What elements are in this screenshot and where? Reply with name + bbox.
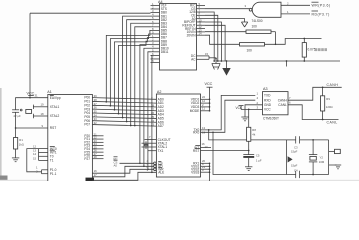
wire crystal top from TX0 row [209, 130, 287, 140]
svg-text:23: 23 [151, 123, 155, 127]
junction dot CANL at R9 [322, 119, 324, 121]
ground under A3 GND [241, 117, 248, 121]
svg-text:100: 100 [247, 48, 253, 52]
svg-text:17: 17 [94, 173, 98, 177]
wire RX0 to A3 RXD [201, 100, 256, 132]
wire VSS tie bar [209, 163, 211, 172]
filled triangle ground [226, 61, 228, 68]
svg-text:CTM1050T: CTM1050T [263, 117, 279, 121]
svg-text:CANL: CANL [327, 121, 338, 125]
NAND gate inversion bubble [249, 8, 252, 11]
op IC A4 AD574 body [160, 4, 197, 71]
bus wire DB4 direct L-bend [135, 27, 151, 126]
svg-text:T1: T1 [50, 159, 54, 163]
crystal stub body small [144, 145, 148, 146]
IC A1 P2 stubs [92, 135, 103, 137]
svg-text:RX0: RX0 [193, 131, 199, 135]
bus wire DB5 double-bend staircase [106, 30, 150, 101]
IC A1 pin RST stub [16, 127, 48, 129]
svg-text:ALE: ALE [158, 171, 164, 175]
wire CANH out [288, 87, 342, 100]
svg-text:15pF: 15pF [291, 163, 298, 167]
wire A4 BIPOFF drop [205, 22, 221, 61]
bus wire DB8 double-bend staircase [119, 41, 151, 114]
IC A1 pin EA stub from VCC node [30, 97, 48, 99]
ground under R1 [12, 158, 19, 162]
wire R5 to loop corner [271, 31, 276, 33]
wire cap to RST node [15, 112, 17, 137]
IC A1 dark label blob bottom [86, 178, 95, 181]
capacitor C5 electrolytic [248, 151, 250, 155]
svg-text:32: 32 [94, 121, 98, 125]
svg-text:P27: P27 [84, 157, 90, 161]
IC A1 pin XTAL1 stub [33, 106, 47, 108]
CLKOUT stub [145, 139, 157, 141]
svg-text:1 µF: 1 µF [256, 159, 262, 163]
digital ground under gate [241, 22, 247, 27]
svg-text:XTAL1: XTAL1 [50, 105, 60, 109]
wire RST to reset RC node [201, 150, 249, 152]
junction dot CANH at R9 [322, 86, 324, 88]
resistor R9 120ohm vertical [322, 87, 324, 96]
wire INT stub [201, 147, 212, 149]
svg-text:RD(P3.7): RD(P3.7) [312, 12, 330, 16]
stub down from rail [286, 61, 288, 67]
capacitor C1 22uF electrolytic plates [12, 109, 19, 111]
IC A2 pins CS RD WR ALE bubbles [154, 162, 157, 165]
svg-text:A3: A3 [263, 87, 268, 91]
bus wire DB1 direct L-bend [123, 16, 151, 117]
wire gate output to A4 CS row [205, 8, 249, 10]
crystal Y2 vertical taps [312, 140, 314, 155]
svg-text:GND: GND [264, 103, 272, 107]
junction dot VCC node [29, 97, 31, 99]
svg-text:VCC: VCC [264, 108, 271, 112]
wire VDD bar to VCC [209, 87, 211, 99]
svg-text:VCC: VCC [236, 106, 243, 110]
resistor R8 vertical [248, 109, 250, 127]
wire 20VIN jog down [205, 35, 240, 44]
bus junction dots lower [139, 162, 141, 164]
svg-text:AC: AC [191, 58, 196, 62]
junction dot rail mid [226, 60, 228, 62]
svg-text:A1: A1 [47, 90, 52, 94]
bus wire DB3 direct L-bend [131, 23, 151, 125]
wire VCC loop horizontal top [30, 12, 151, 14]
bus verticals DB9-DB11 down to A2 control rows [140, 45, 151, 164]
svg-text:0.075: 0.075 [308, 48, 316, 52]
svg-text:WR(P3.6): WR(P3.6) [312, 4, 331, 8]
wire A4 CE control drop [205, 15, 218, 61]
bus rows P0 to AD [92, 98, 156, 100]
svg-text:TX1: TX1 [158, 149, 164, 153]
wire to terminal box [329, 151, 335, 153]
svg-text:22 µF: 22 µF [14, 114, 21, 118]
wire VSS bar down [209, 172, 211, 181]
svg-text:DB11: DB11 [161, 50, 169, 54]
wire analog common rail [209, 57, 216, 59]
svg-text:A0: A0 [114, 164, 118, 168]
scan artifact: bottom-left dark blob [0, 176, 8, 182]
wire crystal bottom from RX0 row [213, 132, 287, 174]
VCC tick at A3 [240, 106, 242, 110]
bus wire DB7 double-bend staircase [114, 38, 150, 110]
junction dot RX0 crystal tap [212, 131, 214, 133]
svg-text:CANL: CANL [278, 103, 287, 107]
wire tie bar P1.0-P1.1 [41, 170, 43, 174]
junction dot RST node A2 [248, 150, 250, 152]
scan artifact: bottom edge shade [0, 180, 359, 181]
IC A2 VDD stubs to tie bar [201, 98, 210, 100]
VSS stubs to tie bar [201, 162, 210, 164]
svg-text:VCC: VCC [205, 82, 213, 86]
wire DC-AC tie bar [208, 56, 210, 59]
svg-text:31: 31 [35, 94, 39, 98]
IC A1 P1.0 P1.1 stubs [42, 169, 48, 171]
IC A4 pin AC stub [197, 58, 210, 60]
wire gate input pin 1 [281, 13, 310, 15]
wire bracket loop left [27, 149, 42, 172]
XTAL1 stub with crystal plate tick [142, 146, 157, 148]
resistor R6 100 horizontal [240, 43, 265, 46]
CAN transceiver IC A3 body [263, 92, 289, 115]
IC A4 left pin stubs [151, 4, 160, 6]
svg-text:74LS00: 74LS00 [252, 19, 263, 23]
shunt chinese label blocks [315, 48, 327, 51]
scan artifact: left edge shade [0, 88, 2, 181]
wire R8 to RST node [248, 141, 250, 150]
analog ground splayed [212, 59, 220, 70]
svg-text:120Ω: 120Ω [326, 105, 333, 109]
wire RD from A1 pin17 to A2 [92, 166, 153, 177]
NAND gate U5 74LS00 body (mirrored) [252, 2, 281, 17]
junction dot A3 VCC row [248, 109, 250, 111]
svg-text:RST: RST [193, 149, 199, 153]
svg-text:TXD: TXD [264, 94, 271, 98]
wire C5 to ground [248, 158, 250, 167]
svg-text:A2: A2 [157, 90, 162, 94]
CAN IC A2 SJA1000 body [156, 94, 200, 177]
VDD junction dots [209, 98, 211, 100]
svg-text:MODE: MODE [190, 109, 200, 113]
svg-text:R9: R9 [326, 97, 330, 101]
TX1 stub [148, 150, 156, 152]
shunt resistor R7 0.075 vertical [303, 39, 305, 43]
svg-text:Y2: Y2 [320, 155, 324, 159]
svg-text:11: 11 [202, 107, 205, 111]
svg-text:P1.1: P1.1 [50, 172, 57, 176]
wire to ground right [329, 164, 337, 166]
wire R6 to step up [265, 39, 322, 45]
crystal Y1 plates at XTAL pins [32, 105, 34, 109]
svg-text:17: 17 [205, 145, 209, 149]
bus wire DB2 direct L-bend [127, 20, 151, 122]
svg-text:28: 28 [94, 155, 98, 159]
IC A1 INT0/INT1/T0/T1 stubs [39, 148, 48, 150]
ground under C5 [245, 167, 252, 171]
wire tie bar INT0-T1 [38, 149, 40, 161]
IC A3 GND stub wire to ground [245, 105, 263, 117]
IC A4 pin DC stub [197, 55, 210, 57]
svg-text:C4: C4 [294, 168, 298, 172]
junction dot at shunt top [303, 38, 305, 40]
bus wire DB6 double-bend staircase [110, 34, 150, 106]
svg-text:20VIN: 20VIN [187, 33, 197, 37]
svg-text:14: 14 [199, 32, 203, 36]
svg-text:1kΩ: 1kΩ [19, 142, 24, 146]
svg-text:15: 15 [205, 52, 209, 56]
junction dot at shunt bottom [303, 60, 305, 62]
svg-text:VCC: VCC [27, 92, 35, 96]
crystal Y1 body [26, 110, 32, 114]
svg-text:CANH: CANH [327, 83, 339, 87]
bus junction dots on P0/AD rows [105, 101, 107, 103]
wire CANL out [288, 105, 339, 120]
svg-text:AD7: AD7 [158, 124, 164, 128]
svg-text:19: 19 [41, 103, 45, 107]
capacitor C3 top plates [287, 139, 296, 141]
wire ALE from A1 to A2 [92, 172, 156, 180]
wire 10VIN row to R5 [205, 31, 246, 33]
svg-text:RXD: RXD [264, 98, 271, 102]
IC A4 right pin stubs [197, 4, 206, 6]
terminal box [335, 149, 341, 153]
svg-text:100: 100 [252, 25, 258, 29]
svg-text:CANH: CANH [278, 98, 288, 102]
arrow marker on loop left [288, 156, 293, 162]
wire loop right vertical [275, 32, 277, 45]
wire A4 A0 to digital ground [205, 19, 245, 22]
wire gate input pin 2 [281, 4, 310, 6]
svg-text:R1: R1 [19, 138, 23, 142]
svg-text:C5: C5 [256, 154, 260, 158]
svg-text:15pF: 15pF [291, 149, 298, 153]
IC A3 VCC stub wire [241, 108, 263, 110]
capacitor C4 bottom plates [287, 174, 296, 176]
svg-text:13: 13 [202, 126, 206, 130]
wire R1 to ground [15, 149, 17, 158]
svg-text:15: 15 [33, 156, 37, 160]
wire A4 12/8 control drop [205, 12, 214, 61]
junction dot RST node [15, 127, 17, 129]
ground right of crystal [335, 165, 341, 169]
crystal Y2 plates and body [309, 154, 317, 156]
svg-text:RST: RST [50, 126, 56, 130]
svg-text:XTAL2: XTAL2 [50, 114, 60, 118]
wire loop right vertical [328, 140, 330, 175]
wire WR from A1 pin16 to A2 [92, 169, 153, 173]
junction dot TX0 crystal tap [208, 129, 210, 131]
wire CS net to A2 [120, 162, 154, 164]
wire TX0 to A3 TXD [201, 95, 256, 129]
wire VDD tie bar [209, 99, 211, 111]
IC A1 pin XTAL2 stub [33, 115, 47, 117]
resistor R1 1k vertical [14, 138, 18, 150]
wire VCC loop vertical left [29, 13, 31, 98]
svg-text:R8: R8 [252, 128, 256, 132]
svg-text:EA/Vpp: EA/Vpp [50, 96, 61, 100]
wire crystal loop left vertical [286, 140, 288, 175]
svg-text:16M: 16M [319, 160, 325, 164]
wire A4 REFOUT drop [205, 25, 225, 61]
MCU IC A1 body [48, 95, 93, 184]
XTAL2 stub with crystal plate tick [142, 142, 157, 144]
svg-text:P07: P07 [84, 123, 90, 127]
resistor R5 100 horizontal [246, 30, 271, 33]
reset wire VCC to cap [16, 98, 30, 110]
junction dot rail right [286, 60, 288, 62]
svg-text:18: 18 [41, 112, 45, 116]
svg-text:VSS3: VSS3 [191, 170, 199, 174]
